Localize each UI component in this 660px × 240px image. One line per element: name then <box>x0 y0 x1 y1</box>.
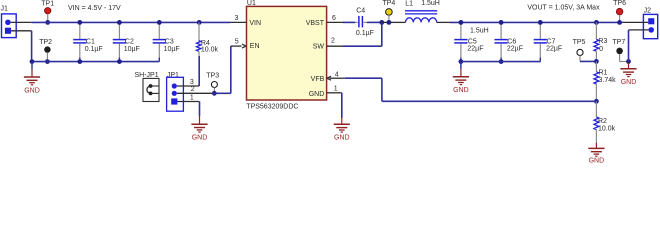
svg-text:VIN: VIN <box>249 20 261 27</box>
JP1 pin3 lead <box>177 85 199 87</box>
U1 pin6 VBST lead <box>327 21 343 23</box>
capacitor C7 <box>539 24 541 39</box>
ground below J1 <box>31 62 33 70</box>
J2 pin1 lead <box>622 21 648 23</box>
node C5 top <box>459 20 464 25</box>
U1 pin2 SW lead <box>327 45 343 47</box>
svg-text:GND: GND <box>589 157 605 163</box>
wire VFB net <box>345 77 382 79</box>
wire R4 to JP1 pin3 <box>198 56 200 86</box>
ground below U1 <box>341 118 343 124</box>
svg-text:TP2: TP2 <box>39 39 52 46</box>
svg-text:3: 3 <box>190 79 194 86</box>
wire C4 to SW node <box>367 21 382 23</box>
svg-text:3.74k: 3.74k <box>599 77 617 84</box>
capacitor C4 <box>355 21 358 23</box>
resistor R4 <box>197 20 202 25</box>
node C6 top <box>499 20 504 25</box>
svg-text:10µF: 10µF <box>124 46 140 53</box>
J1 pin1 lead <box>11 21 32 23</box>
svg-text:R1: R1 <box>599 70 608 77</box>
svg-text:TP3: TP3 <box>206 72 219 79</box>
U1 pin1 GND lead <box>327 92 342 94</box>
svg-text:3: 3 <box>235 15 239 22</box>
svg-text:VBST: VBST <box>306 20 325 27</box>
U1 pin3 VIN lead <box>230 21 246 23</box>
svg-text:VOUT = 1.05V, 3A Max: VOUT = 1.05V, 3A Max <box>527 5 600 12</box>
node C3 top <box>157 20 162 25</box>
svg-text:TP5: TP5 <box>573 39 586 46</box>
J2 pin2 lead <box>629 29 649 31</box>
svg-text:C3: C3 <box>165 38 174 45</box>
J1 pin2 lead <box>11 30 32 32</box>
svg-text:U1: U1 <box>247 0 256 7</box>
wire TP5 to R3 node <box>580 60 596 62</box>
svg-text:R3: R3 <box>598 38 607 45</box>
svg-text:1: 1 <box>190 95 194 102</box>
node TP6 <box>617 20 622 25</box>
svg-text:22µF: 22µF <box>546 46 562 53</box>
svg-text:JP1: JP1 <box>167 72 179 79</box>
node C6 bottom <box>499 59 504 64</box>
node C1 top <box>77 20 82 25</box>
svg-text:10µF: 10µF <box>164 46 180 53</box>
node TP2 on gnd rail <box>45 59 50 64</box>
svg-text:0.1µF: 0.1µF <box>356 30 374 37</box>
svg-text:22µF: 22µF <box>507 46 523 53</box>
inductor L1 <box>390 21 406 23</box>
svg-text:EN: EN <box>250 43 260 50</box>
svg-text:GND: GND <box>24 87 40 94</box>
wire U1 gnd down <box>341 93 343 118</box>
resistor R1 <box>595 61 597 71</box>
svg-text:C1: C1 <box>86 38 95 45</box>
node C7 top <box>538 20 543 25</box>
resistor R3 <box>594 20 599 25</box>
JP1 pin1 lead <box>177 101 199 103</box>
capacitor C5 <box>460 24 462 39</box>
ground below JP1 <box>199 102 201 117</box>
svg-text:1.5uH: 1.5uH <box>470 27 489 34</box>
ground below TP7 <box>628 63 630 69</box>
connector J1 <box>2 14 17 38</box>
wire J2 pin2 down <box>628 30 630 62</box>
node C5 bottom <box>459 59 464 64</box>
ground below C5 <box>460 62 462 70</box>
svg-text:C6: C6 <box>507 38 516 45</box>
svg-text:22µF: 22µF <box>467 46 483 53</box>
svg-text:0: 0 <box>599 46 603 53</box>
svg-text:GND: GND <box>334 135 350 142</box>
svg-text:SW: SW <box>313 43 325 50</box>
node R3 bottom <box>594 59 599 64</box>
node C2 bottom <box>117 59 122 64</box>
capacitor C3 <box>158 24 160 39</box>
svg-text:6: 6 <box>332 15 336 22</box>
wire J1 pin2 down to GND rail <box>31 31 33 62</box>
svg-text:C2: C2 <box>125 38 134 45</box>
wire VOUT rail <box>450 21 622 23</box>
svg-text:2: 2 <box>191 86 195 93</box>
node C2 top <box>117 20 122 25</box>
EN pin arrow <box>242 44 246 48</box>
wire lower-left gnd rail <box>32 61 159 63</box>
wire VBST to C4 <box>343 21 355 23</box>
node C1 bottom <box>77 59 82 64</box>
svg-text:10.0k: 10.0k <box>598 126 616 133</box>
wire JP1 pin2 to EN <box>212 92 231 94</box>
node feedback <box>594 99 599 104</box>
svg-text:TP7: TP7 <box>612 39 625 46</box>
wire lower output gnd rail <box>461 61 540 63</box>
svg-text:J2: J2 <box>644 8 652 15</box>
svg-text:GND: GND <box>192 135 208 142</box>
svg-text:C4: C4 <box>356 7 365 14</box>
capacitor C2 <box>118 24 120 39</box>
U1 pin4 VFB lead <box>327 76 331 80</box>
capacitor C6 <box>500 24 502 39</box>
svg-text:GND: GND <box>453 87 469 94</box>
svg-text:C7: C7 <box>547 38 556 45</box>
svg-text:GND: GND <box>621 79 637 86</box>
node SW riser <box>379 20 384 25</box>
svg-text:1.5uH: 1.5uH <box>421 0 440 7</box>
op IC U1 TPS563209DDC <box>247 6 327 100</box>
svg-text:TP6: TP6 <box>613 0 626 7</box>
node TP7 / J2 return <box>626 59 631 64</box>
svg-text:GND: GND <box>309 91 325 98</box>
node TP4 <box>387 20 392 25</box>
node TP3 / JP1 pin2 <box>212 91 217 96</box>
svg-text:0.1µF: 0.1µF <box>85 46 103 53</box>
wire VIN top rail <box>32 21 231 23</box>
svg-text:1: 1 <box>334 86 338 93</box>
JP1 pin2 lead <box>177 92 212 94</box>
svg-text:J1: J1 <box>1 6 9 13</box>
svg-text:C5: C5 <box>468 38 477 45</box>
svg-text:5: 5 <box>235 38 239 45</box>
svg-text:L1: L1 <box>405 0 413 7</box>
svg-text:TP1: TP1 <box>41 0 54 7</box>
svg-text:4: 4 <box>335 71 339 78</box>
svg-text:2: 2 <box>331 38 335 45</box>
svg-text:10.0k: 10.0k <box>201 47 219 54</box>
wire SW node to TP4 <box>382 21 392 23</box>
node TP1 on VIN rail <box>45 20 50 25</box>
svg-text:VFB: VFB <box>311 76 325 83</box>
ground below R2 <box>595 143 597 149</box>
svg-text:R2: R2 <box>598 118 607 125</box>
resistor R2 <box>595 101 597 117</box>
svg-text:VIN = 4.5V - 17V: VIN = 4.5V - 17V <box>68 5 121 12</box>
node J1-gnd tee <box>30 59 35 64</box>
wire SW to riser <box>343 45 382 47</box>
svg-text:TP4: TP4 <box>382 0 395 7</box>
svg-text:TPS563209DDC: TPS563209DDC <box>246 104 298 111</box>
capacitor C1 <box>79 24 81 39</box>
